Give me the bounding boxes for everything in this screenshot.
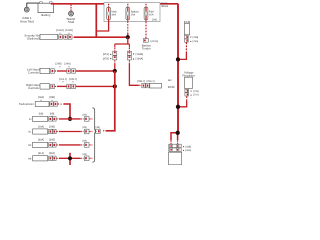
svg-text:[2B]: [2B]	[83, 153, 87, 156]
wire: left stack down to LH node	[114, 60, 116, 63]
svg-text:ECM: ECM	[168, 85, 175, 89]
svg-text:▼: ▼	[72, 81, 74, 84]
battery	[38, 2, 54, 17]
ECM top	[184, 20, 199, 43]
lamp row 1	[29, 113, 92, 121]
wire: fuse F3 drop (dashed) to battery tender pigtail	[145, 20, 147, 24]
svg-text:▲ [33A]: ▲ [33A]	[182, 149, 191, 152]
connector stack [134A]/[134B]	[127, 51, 143, 60]
svg-text:(Optional): (Optional)	[27, 37, 40, 41]
node regulator junction	[176, 105, 180, 109]
node: junction under battery fuse	[126, 35, 130, 39]
svg-text:[30A]: [30A]	[38, 139, 44, 142]
connector stack [37A]/[37B]	[103, 51, 117, 60]
svg-text:[37A] ▲: [37A] ▲	[103, 53, 112, 56]
svg-text:[30B]: [30B]	[49, 139, 55, 142]
security siren labels [142A] [142B]	[56, 29, 73, 35]
svg-text:[64]: [64]	[152, 19, 157, 22]
svg-text:[18B]: [18B]	[49, 96, 55, 99]
labels [24B] [24A]	[56, 62, 71, 68]
svg-text:▼ [33B]: ▼ [33B]	[182, 145, 191, 148]
ground GND1 stud symbol	[24, 7, 29, 12]
left hand controls	[27, 68, 75, 75]
labels [18A] [18B]	[38, 96, 55, 102]
node RH	[113, 84, 117, 88]
wire: bus down to instrument brace	[106, 71, 115, 131]
label GND 1 Rear Stud	[20, 16, 34, 23]
fuse F3 P&A 15A	[144, 4, 154, 20]
svg-text:[37B] ▼: [37B] ▼	[103, 58, 112, 61]
wire: RH row to bus	[76, 85, 115, 87]
svg-text:IN: IN	[29, 118, 32, 121]
svg-text:[24B]: [24B]	[56, 62, 62, 65]
wire: starter stud drop (dashed)	[70, 5, 72, 12]
svg-text:[22B-1]: [22B-1]	[69, 78, 78, 81]
svg-text:[2B]: [2B]	[83, 139, 87, 142]
svg-text:▼ [78B]: ▼ [78B]	[190, 36, 199, 39]
lamp row 4	[28, 153, 92, 161]
wire: fuse F2 drop to main node	[127, 20, 129, 23]
tachometer	[19, 102, 63, 107]
svg-text:Controls: Controls	[28, 71, 39, 75]
svg-text:Rear Stud: Rear Stud	[20, 20, 34, 24]
svg-text:[29B]: [29B]	[49, 125, 55, 128]
wire: battery feed drop to main node	[95, 4, 97, 37]
svg-text:[31A]: [31A]	[38, 152, 44, 155]
svg-text:▼: ▼	[62, 81, 64, 84]
svg-text:Block: Block	[162, 5, 169, 8]
ground GND1 rear stud wire	[27, 3, 41, 7]
connector pair + ECM mid	[142, 83, 175, 89]
svg-text:Stud: Stud	[68, 20, 75, 24]
labels row3	[38, 139, 55, 145]
node LH	[113, 69, 117, 73]
labels [78B-2] [78A-2]	[137, 80, 155, 83]
label Starter Stud	[66, 17, 75, 24]
node bottom split	[176, 131, 180, 135]
fuse F2 Battery 15A	[126, 4, 140, 20]
starter stud symbol	[69, 11, 74, 16]
wire: right stack down and to ECM row	[128, 60, 130, 63]
svg-text:[24A]: [24A]	[65, 62, 71, 65]
svg-text:[78B-2]: [78B-2]	[137, 80, 145, 83]
svg-text:[78A-2]: [78A-2]	[146, 80, 154, 83]
lamp row 3	[28, 139, 92, 147]
svg-text:▼: ▼	[59, 65, 61, 68]
svg-text:[18A]: [18A]	[38, 96, 44, 99]
svg-text:[2B]: [2B]	[83, 126, 87, 129]
right hand controls	[26, 83, 75, 90]
wire: battery positive top bus	[51, 3, 178, 5]
svg-text:[2B]: [2B]	[83, 113, 87, 116]
node ECM junction	[176, 57, 180, 61]
wire: ECM drop to main node	[185, 42, 187, 52]
svg-text:[2B]: [2B]	[96, 126, 101, 129]
svg-text:1 [201A]: 1 [201A]	[150, 40, 159, 43]
svg-text:▼ [134B]: ▼ [134B]	[132, 53, 143, 56]
svg-text:[9B]: [9B]	[50, 113, 55, 116]
voltage regulator	[183, 71, 199, 97]
svg-text:OP: OP	[28, 144, 32, 147]
svg-text:▲ [134A]: ▲ [134A]	[132, 58, 143, 61]
connector pin [2B] instrument feed	[96, 126, 101, 133]
svg-text:[29A]: [29A]	[38, 125, 44, 128]
label Battery Tender	[142, 43, 152, 50]
svg-text:Battery: Battery	[41, 13, 51, 17]
wire: regulator drop to main node	[186, 96, 188, 101]
connector pin [201A] battery tender	[143, 39, 158, 43]
svg-text:BN: BN	[168, 79, 172, 82]
svg-text:Controls: Controls	[28, 86, 39, 90]
svg-text:15A: 15A	[131, 13, 136, 16]
security siren (optional)	[24, 34, 72, 41]
svg-text:[31B]: [31B]	[49, 152, 55, 155]
labels row4	[38, 152, 55, 158]
svg-text:[9A]: [9A]	[39, 113, 44, 116]
svg-text:40A: 40A	[112, 13, 117, 16]
connector rows ignition switch	[169, 144, 192, 152]
wire: main horizontal distribution	[71, 36, 72, 38]
brace connector group	[92, 108, 96, 162]
ignition switch box	[169, 152, 182, 165]
wire: tach row to lamp bus	[63, 104, 70, 119]
labels row2	[38, 125, 55, 131]
wire: fuse F1 to battery drop (staple)	[96, 20, 108, 31]
fuse block box	[104, 3, 160, 22]
wire: node to interconnect stacks	[115, 37, 130, 44]
svg-text:▲ [78A]: ▲ [78A]	[190, 40, 199, 43]
svg-text:▼ [77B]: ▼ [77B]	[190, 90, 199, 93]
svg-text:[22A-1]: [22A-1]	[59, 78, 68, 81]
lamp row 2	[28, 126, 92, 134]
labels row1	[39, 113, 55, 119]
wire: main right vertical	[177, 4, 179, 133]
svg-text:15A: 15A	[149, 13, 154, 16]
node lamp row 1	[68, 117, 72, 121]
svg-text:R: R	[60, 103, 62, 106]
wire: LH row to bus	[76, 70, 115, 72]
labels [22A-1] [22B-1]	[59, 78, 78, 84]
wire: bottom split	[171, 133, 178, 140]
svg-text:▲ [77A]: ▲ [77A]	[190, 94, 199, 97]
svg-text:Tender: Tender	[142, 46, 151, 50]
svg-text:▼: ▼	[68, 65, 70, 68]
svg-text:[142A]: [142A]	[56, 29, 64, 32]
wire: stub above row4 node to bottom edge	[69, 153, 71, 165]
svg-text:HB: HB	[28, 157, 32, 160]
fuse F1 Main 40A	[107, 4, 118, 20]
svg-text:[142B]: [142B]	[65, 29, 73, 32]
svg-text:Tachometer: Tachometer	[19, 102, 34, 106]
label Fuse Block	[162, 2, 169, 8]
node lamp row 4	[68, 156, 72, 160]
